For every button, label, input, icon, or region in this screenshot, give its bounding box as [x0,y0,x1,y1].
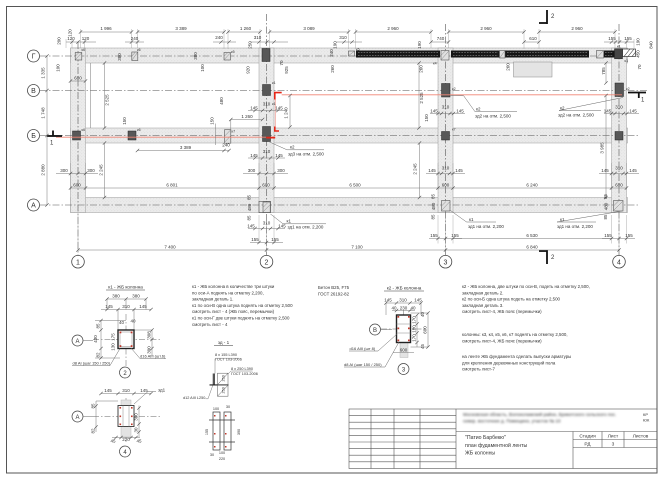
section 2 top [546,10,548,24]
dims above [386,303,421,315]
svg-text:70: 70 [637,64,642,70]
svg-text:310: 310 [339,35,347,40]
interior horizontal dim line (600 / 6801 / 600 / 6500 ...) [71,187,628,189]
angle plate shapes [206,358,253,399]
svg-text:2 245: 2 245 [99,164,104,176]
svg-text:230: 230 [400,306,408,311]
svg-text:к2 - ЖБ колонна, две штуки по: к2 - ЖБ колонна, две штуки по оси-В, под… [462,284,590,289]
svg-text:"Патио Барбекю": "Патио Барбекю" [465,435,506,441]
svg-text:130: 130 [111,343,116,351]
svg-text:145: 145 [250,106,258,111]
600 mini dim on axis1 strip [71,80,86,82]
strip axis 3 [438,48,453,213]
svg-text:155: 155 [604,233,612,238]
left table rows [349,415,456,417]
svg-text:к1: к1 [287,218,292,223]
bottom 600 [393,352,414,354]
svg-text:к6: к6 [137,48,141,52]
circle 3 [398,364,409,375]
svg-text:смотреть лист-4, ЖБ пояс (пер: смотреть лист-4, ЖБ пояс (перемычки) [462,309,542,314]
svg-text:8 x 250 L390: 8 x 250 L390 [231,367,253,371]
svg-text:к6: к6 [137,128,141,132]
hatched block right of axis 4 [623,49,637,57]
svg-text:145: 145 [604,109,612,114]
svg-text:к6: к6 [82,128,86,132]
svg-text:d12 AIII L250: d12 AIII L250 [183,396,205,400]
svg-text:155: 155 [430,233,438,238]
svg-text:120: 120 [68,29,73,37]
svg-text:2 880: 2 880 [41,164,46,176]
svg-text:310: 310 [442,105,450,110]
svg-text:390: 390 [237,429,241,435]
svg-text:смотреть лист-4, ЖБ пояс (пер: смотреть лист-4, ЖБ пояс (перемычки) [462,338,542,343]
svg-text:7 100: 7 100 [351,245,363,250]
svg-text:155: 155 [271,237,279,242]
svg-text:450: 450 [636,50,641,58]
svg-text:к1 по оси-Г две штуки поднять: к1 по оси-Г две штуки поднять на отметку… [192,316,290,321]
leaders [72,348,166,366]
svg-text:Листов: Листов [633,434,649,440]
svg-text:150: 150 [210,117,215,125]
svg-text:310: 310 [615,105,623,110]
svg-text:6 801: 6 801 [166,183,178,188]
svg-text:145: 145 [629,109,637,114]
svg-text:закладная деталь 2.: закладная деталь 2. [462,290,503,295]
svg-text:145: 145 [384,298,392,303]
section 1 left [47,135,62,137]
svg-text:2 525: 2 525 [419,92,424,104]
svg-text:к2: к2 [626,87,630,91]
svg-text:6 500: 6 500 [349,183,361,188]
svg-text:45: 45 [110,439,116,444]
tiny column tags [82,45,630,134]
svg-text:1 996: 1 996 [100,26,112,31]
svg-text:d16 AIII (шт 8): d16 AIII (шт 8) [350,346,376,351]
svg-text:d16 AIII (шт.6): d16 AIII (шт.6) [140,354,166,359]
svg-text:155: 155 [624,36,632,41]
svg-text:зд3 на отм. 2,500: зд3 на отм. 2,500 [288,151,324,156]
svg-text:380: 380 [117,53,122,61]
svg-text:300: 300 [87,168,95,173]
svg-text:1 335: 1 335 [41,67,46,79]
svg-text:30: 30 [210,453,214,457]
svg-text:480: 480 [604,202,609,210]
circle А [72,411,83,422]
svg-text:Стадия: Стадия [579,434,596,440]
svg-text:85: 85 [247,215,252,221]
svg-text:70: 70 [279,60,284,66]
crosshair [381,310,425,352]
left table columns [370,409,372,469]
svg-text:40: 40 [420,312,425,318]
svg-text:82: 82 [96,352,101,358]
axis 1 [77,42,79,255]
svg-text:2 245: 2 245 [413,163,418,175]
svg-text:к6: к6 [82,48,86,52]
svg-text:380: 380 [193,52,198,60]
svg-text:310: 310 [254,35,262,40]
svg-text:ГОСТ 103-2006: ГОСТ 103-2006 [231,372,258,376]
svg-text:к2 - ЖБ колонна: к2 - ЖБ колонна [387,286,422,291]
dim row below Б band (3389 / 240) [138,150,230,152]
dims below [112,437,140,439]
svg-text:840: 840 [649,41,654,49]
svg-text:А: А [75,415,79,421]
svg-text:смотреть лист - 4 (ЖБ пояс, пе: смотреть лист - 4 (ЖБ пояс, перемычки) [192,309,275,314]
section 1 right [628,92,646,94]
svg-text:к1 - ЖБ колонна в количестве т: к1 - ЖБ колонна в количестве три штуки [192,284,275,289]
column square [118,330,134,349]
svg-text:В: В [31,88,36,95]
svg-text:к1: к1 [625,59,629,63]
dims above [96,394,151,433]
svg-text:380: 380 [112,294,120,299]
svg-text:85: 85 [247,195,252,201]
svg-text:зд2 на отм. 2,500: зд2 на отм. 2,500 [558,113,594,118]
steel plate [213,374,215,385]
svg-text:к7: к7 [232,130,236,134]
top dimension row 2 [66,41,634,43]
svg-text:6 840: 6 840 [526,245,538,250]
gray dotted rectangle between axes 3-4 below Г [514,62,553,77]
svg-text:РД: РД [584,442,591,448]
svg-text:зд1: зд1 [158,388,166,393]
svg-text:зд - 1: зд - 1 [218,340,230,345]
axis 2 [266,14,268,255]
svg-text:600: 600 [423,326,428,334]
svg-text:4: 4 [617,259,621,266]
left dim chain [95,321,126,359]
svg-text:925: 925 [284,66,289,74]
axis circles left [28,50,626,268]
svg-text:2 960: 2 960 [387,26,399,31]
svg-text:610: 610 [529,36,537,41]
svg-text:310: 310 [399,298,407,303]
right dim chain [134,330,152,356]
axis dash-dot lines [40,14,648,255]
svg-text:145: 145 [629,168,637,173]
svg-text:220: 220 [219,457,225,461]
svg-text:145: 145 [247,224,255,229]
column rect [397,315,411,343]
svg-text:190: 190 [636,38,641,46]
svg-text:3: 3 [444,259,448,266]
svg-text:КР: КР [643,412,648,417]
svg-text:к2 по оси-Б одна штука подеть: к2 по оси-Б одна штука подеть на отметку… [462,297,561,302]
svg-text:2: 2 [265,259,269,266]
extension lines interior rows [71,163,627,190]
svg-text:240: 240 [131,36,139,41]
band axis А [71,198,628,213]
svg-text:260: 260 [506,63,511,71]
svg-text:к2: к2 [560,106,565,111]
svg-text:145: 145 [105,304,113,309]
axis А [40,204,640,206]
svg-text:зд1 на отм. 2,200: зд1 на отм. 2,200 [288,224,324,229]
svg-text:600: 600 [73,183,81,188]
svg-text:220: 220 [122,437,130,442]
column markers dark/medium [73,49,624,142]
bold red box right of axis2 column В-Б [275,93,282,100]
svg-text:зд1 на отм. 2,200: зд1 на отм. 2,200 [557,224,593,229]
svg-text:380: 380 [132,294,140,299]
section marks [47,10,646,264]
svg-text:85: 85 [91,403,96,409]
svg-text:к2: к2 [452,87,456,91]
svg-text:145: 145 [414,298,422,303]
svg-text:145: 145 [430,109,438,114]
leader labels on plan [270,96,624,224]
svg-text:смотреть лист - 4: смотреть лист - 4 [192,322,228,327]
svg-text:145: 145 [428,168,436,173]
svg-text:45: 45 [420,344,425,350]
svg-text:85: 85 [96,323,101,329]
svg-text:к2: к2 [476,107,481,112]
svg-text:740: 740 [437,36,445,41]
gray strip under [121,400,131,437]
interior vertical dim lines (2 525) [91,63,607,198]
svg-text:145: 145 [455,168,463,173]
svg-text:1 260: 1 260 [241,114,253,119]
svg-text:155: 155 [251,237,259,242]
svg-text:145: 145 [250,153,258,158]
svg-text:3 089: 3 089 [303,26,315,31]
top dimension chain row 1 [81,31,616,33]
svg-text:к5: к5 [356,48,360,52]
svg-text:2 960: 2 960 [571,26,583,31]
interior dim row 300/300 and 145/310/145 at y~173 [56,173,639,175]
svg-text:ГОСТ 26192-82: ГОСТ 26192-82 [318,291,350,296]
circle В [370,324,381,335]
svg-text:82: 82 [91,428,96,434]
svg-text:180: 180 [412,325,417,333]
svg-text:100: 100 [213,407,219,411]
svg-text:30: 30 [226,405,230,409]
svg-text:к5: к5 [231,50,235,54]
svg-text:к1: к1 [617,45,621,49]
svg-text:155: 155 [608,36,616,41]
left vertical dimension chain [46,56,48,205]
svg-text:300: 300 [277,168,285,173]
svg-text:3 985: 3 985 [600,142,605,154]
svg-text:190: 190 [333,41,338,49]
svg-text:240: 240 [215,35,223,40]
svg-text:170: 170 [412,334,417,342]
svg-text:Г: Г [32,54,36,61]
svg-text:310: 310 [263,149,271,154]
axis В [40,90,648,92]
svg-text:А: А [31,203,36,210]
extension lines from bands down to bottom dim rows [78,214,627,252]
svg-text:2 960: 2 960 [480,26,492,31]
svg-text:155: 155 [205,429,209,435]
blurred address [463,411,616,424]
svg-text:3: 3 [612,442,615,448]
svg-text:для крепления деревянных конст: для крепления деревянных конструкций пол… [462,360,556,365]
svg-text:785: 785 [601,67,606,75]
red line along Б to the left [56,136,266,138]
svg-text:150: 150 [122,117,127,125]
svg-text:200: 200 [57,37,62,45]
svg-text:закладная деталь 1.: закладная деталь 1. [192,297,233,302]
section 2 bottom [546,250,548,264]
circle 2 [120,367,131,378]
svg-text:3 389: 3 389 [180,145,192,150]
svg-text:6 530: 6 530 [526,233,538,238]
svg-text:85: 85 [431,194,436,200]
axis 4 [618,24,620,255]
svg-text:ЖБ колонны: ЖБ колонны [465,451,495,457]
svg-text:В: В [373,328,377,334]
dims 145/310/145 below axis2 column at Б [248,157,285,159]
svg-text:145: 145 [275,153,283,158]
svg-text:100: 100 [200,64,205,72]
section boxes [218,373,229,396]
dim 1260 left of axis2 [216,120,263,146]
square with inner detail [118,406,134,427]
dims above [101,299,151,330]
svg-text:310: 310 [122,304,130,309]
svg-text:3 389: 3 389 [175,26,187,31]
svg-text:Бетон В25, F75: Бетон В25, F75 [318,285,350,290]
leaders [344,334,399,367]
crosshair [93,314,160,366]
svg-text:на ленте ЖБ фундамента сделать: на ленте ЖБ фундамента сделать выпуски а… [462,354,571,359]
svg-text:155: 155 [625,233,633,238]
strip axis 4 [612,48,627,213]
svg-text:145: 145 [139,304,147,309]
svg-text:30: 30 [134,427,139,433]
svg-text:колонны: к3, к4, к5, к6, к7 по: колонны: к3, к4, к5, к6, к7 поднять на о… [462,332,568,337]
main divides [456,431,657,433]
svg-text:150: 150 [424,114,429,122]
svg-text:920: 920 [246,66,251,74]
svg-text:308: 308 [147,331,152,339]
gray strip below [400,343,408,358]
svg-text:175: 175 [111,333,116,341]
svg-text:310: 310 [442,166,450,171]
svg-text:600: 600 [442,183,450,188]
svg-text:145: 145 [456,109,464,114]
svg-text:145: 145 [275,106,283,111]
svg-text:1: 1 [76,259,80,266]
svg-text:300: 300 [248,168,256,173]
svg-text:480: 480 [247,203,252,211]
svg-text:d8 AI (шаг 150 / 250): d8 AI (шаг 150 / 250) [73,361,111,366]
svg-text:d8 AI (шаг 150 / 250): d8 AI (шаг 150 / 250) [344,362,382,367]
svg-text:40: 40 [391,306,397,311]
svg-text:Московская область, Волоколамс: Московская область, Волоколамский район,… [463,411,616,417]
svg-text:к7: к7 [452,128,456,132]
axis Б [40,135,640,137]
svg-text:смотреть лист-7: смотреть лист-7 [462,367,496,372]
svg-text:300: 300 [60,168,68,173]
dims near А band column axis2 (145/310/145) [248,228,285,230]
strip axis 2 [259,48,274,213]
svg-text:155: 155 [451,233,459,238]
svg-text:120: 120 [82,36,90,41]
right dims [411,313,429,347]
svg-text:310: 310 [122,388,130,393]
svg-text:40: 40 [410,306,416,311]
svg-text:Лист: Лист [608,434,619,440]
svg-text:85: 85 [603,214,608,220]
right mini table [573,439,657,441]
svg-text:план фудаментной ленты: план фудаментной ленты [465,442,528,449]
foundation strip bands (gray) [71,48,628,213]
extension lines from top dim rows to band [66,29,634,49]
column markers: light hatched (Г row) [75,51,603,144]
strip axis 1 [71,48,86,213]
axis Г [40,55,640,57]
svg-text:к1: к1 [272,102,276,106]
svg-text:310: 310 [615,166,623,171]
band axis Г [71,48,628,63]
svg-text:250: 250 [248,41,253,49]
svg-text:зд1 на отм. 2,200: зд1 на отм. 2,200 [468,224,504,229]
svg-text:к4: к4 [433,62,437,66]
dark lintel bars along axis Г (right half) [356,51,615,58]
lower elevation [209,412,235,450]
circle 4 [120,446,131,457]
circle А [72,335,83,346]
svg-text:380: 380 [134,413,139,421]
svg-text:6 240: 6 240 [526,183,538,188]
svg-text:240: 240 [222,143,230,148]
svg-text:Б: Б [31,133,36,140]
svg-text:600: 600 [262,183,270,188]
svg-text:по оси-А поднять на отметку 2,: по оси-А поднять на отметку 2,200, [192,290,264,295]
svg-text:170: 170 [412,316,417,324]
svg-text:к1: к1 [560,217,565,222]
svg-text:600: 600 [400,348,408,353]
svg-text:А: А [75,339,79,345]
svg-text:север. восточнее д. Помещино,: север. восточнее д. Помещино, участок № … [463,419,561,424]
svg-text:310: 310 [263,221,271,226]
А row columns: light hatched with outline box [259,201,623,213]
svg-text:7 400: 7 400 [164,245,176,250]
svg-text:ЮК: ЮК [643,418,650,423]
svg-text:40: 40 [130,319,136,324]
svg-text:145: 145 [601,168,609,173]
right dims [138,406,140,438]
red highlight lines [56,93,622,138]
svg-text:45: 45 [136,439,142,444]
dims 145/310/145 above axis2 column between В-Б [248,110,285,112]
svg-text:1 260: 1 260 [240,26,252,31]
svg-text:600: 600 [74,76,82,81]
svg-text:430: 430 [93,335,98,343]
svg-text:260: 260 [330,65,335,73]
svg-text:190: 190 [417,41,422,49]
svg-text:закладная деталь 3.: закладная деталь 3. [462,303,503,308]
svg-text:250: 250 [222,387,226,393]
svg-text:к1 по оси-В одна штука поднять: к1 по оси-В одна штука поднять на отметк… [192,303,293,308]
small vertical dim texts near top [56,29,654,75]
svg-text:8 x 155 L390: 8 x 155 L390 [215,353,237,357]
svg-text:480: 480 [431,202,436,210]
svg-text:к1: к1 [469,217,474,222]
svg-text:85: 85 [603,194,608,200]
svg-text:1 240: 1 240 [284,107,289,119]
dims 145/310/145 at В columns (axes 3,4) [430,113,639,115]
bottom dim rows [250,239,635,243]
svg-text:145: 145 [104,388,112,393]
svg-text:145: 145 [278,224,286,229]
svg-text:к2: к2 [290,145,295,150]
svg-text:310: 310 [263,102,271,107]
svg-text:2 525: 2 525 [105,94,110,106]
